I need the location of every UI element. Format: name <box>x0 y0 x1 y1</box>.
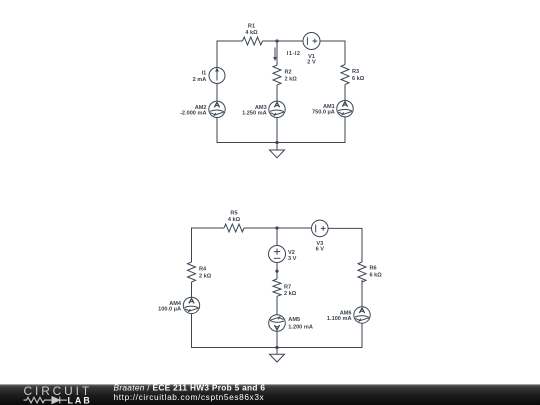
resistor R6 <box>358 262 366 282</box>
svg-text:R4: R4 <box>199 267 207 273</box>
svg-text:6 kΩ: 6 kΩ <box>370 272 383 278</box>
svg-text:R1: R1 <box>248 24 255 30</box>
logo resistor zigzag and diode <box>24 397 68 404</box>
svg-text:2 kΩ: 2 kΩ <box>285 76 298 82</box>
voltage source V2 <box>269 246 286 263</box>
svg-text:100.0 µA: 100.0 µA <box>158 306 181 312</box>
svg-text:R3: R3 <box>352 69 359 75</box>
resistor R4 <box>188 262 196 282</box>
svg-text:I1: I1 <box>202 71 207 77</box>
wire node A to V1 <box>277 40 303 42</box>
wire AM1 to bottom-right corner <box>310 117 345 143</box>
wire R2 to AM3 <box>276 85 278 101</box>
svg-text:6 kΩ: 6 kΩ <box>352 76 365 82</box>
wire middle branch node A to R2 <box>276 41 278 65</box>
wire node B to V2 <box>276 228 278 246</box>
ammeter AM5 (rotated 180) <box>269 315 286 332</box>
svg-text:1.200 mA: 1.200 mA <box>288 324 313 330</box>
node A junction <box>275 39 278 42</box>
resistor R3 <box>341 65 349 85</box>
wire R7 to AM5 <box>276 296 278 314</box>
svg-text:4 kΩ: 4 kΩ <box>228 217 241 223</box>
wire top-left corner to R1 <box>217 41 243 68</box>
wire AM5 to bottom wire <box>276 331 278 347</box>
label AM5 value <box>288 317 313 330</box>
voltage source V1 <box>303 33 320 50</box>
ammeter AM2 <box>209 101 225 117</box>
ammeter AM1 <box>337 101 353 117</box>
wire right branch R6 to AM6 <box>361 280 363 307</box>
svg-text:AM5: AM5 <box>288 317 300 323</box>
ammeter AM6 <box>354 307 370 323</box>
resistor R7 <box>273 279 281 296</box>
ground bottom circuit <box>270 348 285 363</box>
label I1 value <box>193 71 207 84</box>
label AM4 value <box>158 301 182 313</box>
svg-text:4 kΩ: 4 kΩ <box>245 30 258 36</box>
wire R3 branch: top corner to R3 already; R3 to AM1 <box>344 85 346 101</box>
label AM1 value <box>312 104 335 116</box>
wire AM4 to bottom-left corner <box>192 314 231 348</box>
label AM6 value <box>327 311 352 323</box>
svg-text:I1-I2: I1-I2 <box>287 51 301 57</box>
label AM2 value <box>180 105 206 117</box>
resistor R5 <box>224 224 244 232</box>
label V2 value <box>288 250 297 262</box>
wire AM3 to bottom wire <box>276 118 278 143</box>
label V1 value <box>307 54 316 66</box>
svg-text:-2.000 mA: -2.000 mA <box>180 110 206 116</box>
svg-text:2 mA: 2 mA <box>193 77 207 83</box>
label AM3 value <box>242 105 267 117</box>
bottom wire of top circuit <box>217 142 345 144</box>
label R1 value <box>245 24 258 36</box>
svg-text:3 V: 3 V <box>288 256 297 262</box>
svg-text:R5: R5 <box>230 211 237 217</box>
svg-text:V2: V2 <box>288 250 295 256</box>
resistor R1 <box>243 37 263 45</box>
wire left branch R4 to AM4 <box>191 282 193 297</box>
ammeter AM4 <box>183 297 199 313</box>
wire R1 to node A <box>263 40 304 42</box>
current arrow I1-I2 <box>273 48 277 62</box>
label R6 value <box>370 266 383 279</box>
wire V1 to top-right corner <box>320 41 345 65</box>
svg-text:R6: R6 <box>370 266 377 272</box>
current source I1 <box>209 68 225 84</box>
svg-text:2 kΩ: 2 kΩ <box>284 291 297 297</box>
wire V2 to node C <box>276 263 278 280</box>
wire top-left corner to R5 <box>192 228 225 262</box>
label R2 value <box>285 70 298 83</box>
label R3 value <box>352 69 365 82</box>
svg-text:2 kΩ: 2 kΩ <box>199 273 212 279</box>
ammeter AM3 <box>269 101 285 117</box>
svg-text:750.0 µA: 750.0 µA <box>312 110 335 116</box>
voltage source V3 <box>312 220 329 237</box>
label R5 value <box>228 211 241 224</box>
svg-text:1.250 mA: 1.250 mA <box>242 110 267 116</box>
svg-text:1.100 mA: 1.100 mA <box>327 316 352 322</box>
node C junction <box>275 270 278 273</box>
svg-text:LAB: LAB <box>68 395 92 405</box>
svg-text:R2: R2 <box>285 70 292 76</box>
label R7 value <box>284 284 297 297</box>
resistor R2 <box>273 65 281 85</box>
svg-text:R7: R7 <box>284 284 291 290</box>
bottom wire of bottom circuit <box>192 347 363 349</box>
svg-text:2 V: 2 V <box>307 59 316 65</box>
svg-text:http://circuitlab.com/csptn5es: http://circuitlab.com/csptn5es86x3x <box>114 392 265 402</box>
ground top circuit <box>270 143 285 158</box>
label R4 value <box>199 267 212 280</box>
wire AM2 to bottom-left corner <box>217 118 242 143</box>
node ground junction bottom circuit <box>275 346 278 349</box>
wire V3 to top-right corner <box>328 228 362 262</box>
label V3 value <box>316 241 325 253</box>
wire R5 to node B <box>244 227 312 229</box>
node ground junction top circuit <box>275 141 278 144</box>
wire AM6 to bottom-right corner <box>330 323 362 347</box>
wire I1 to AM2 <box>216 84 218 102</box>
node B junction <box>275 226 278 229</box>
svg-text:6 V: 6 V <box>316 247 325 253</box>
